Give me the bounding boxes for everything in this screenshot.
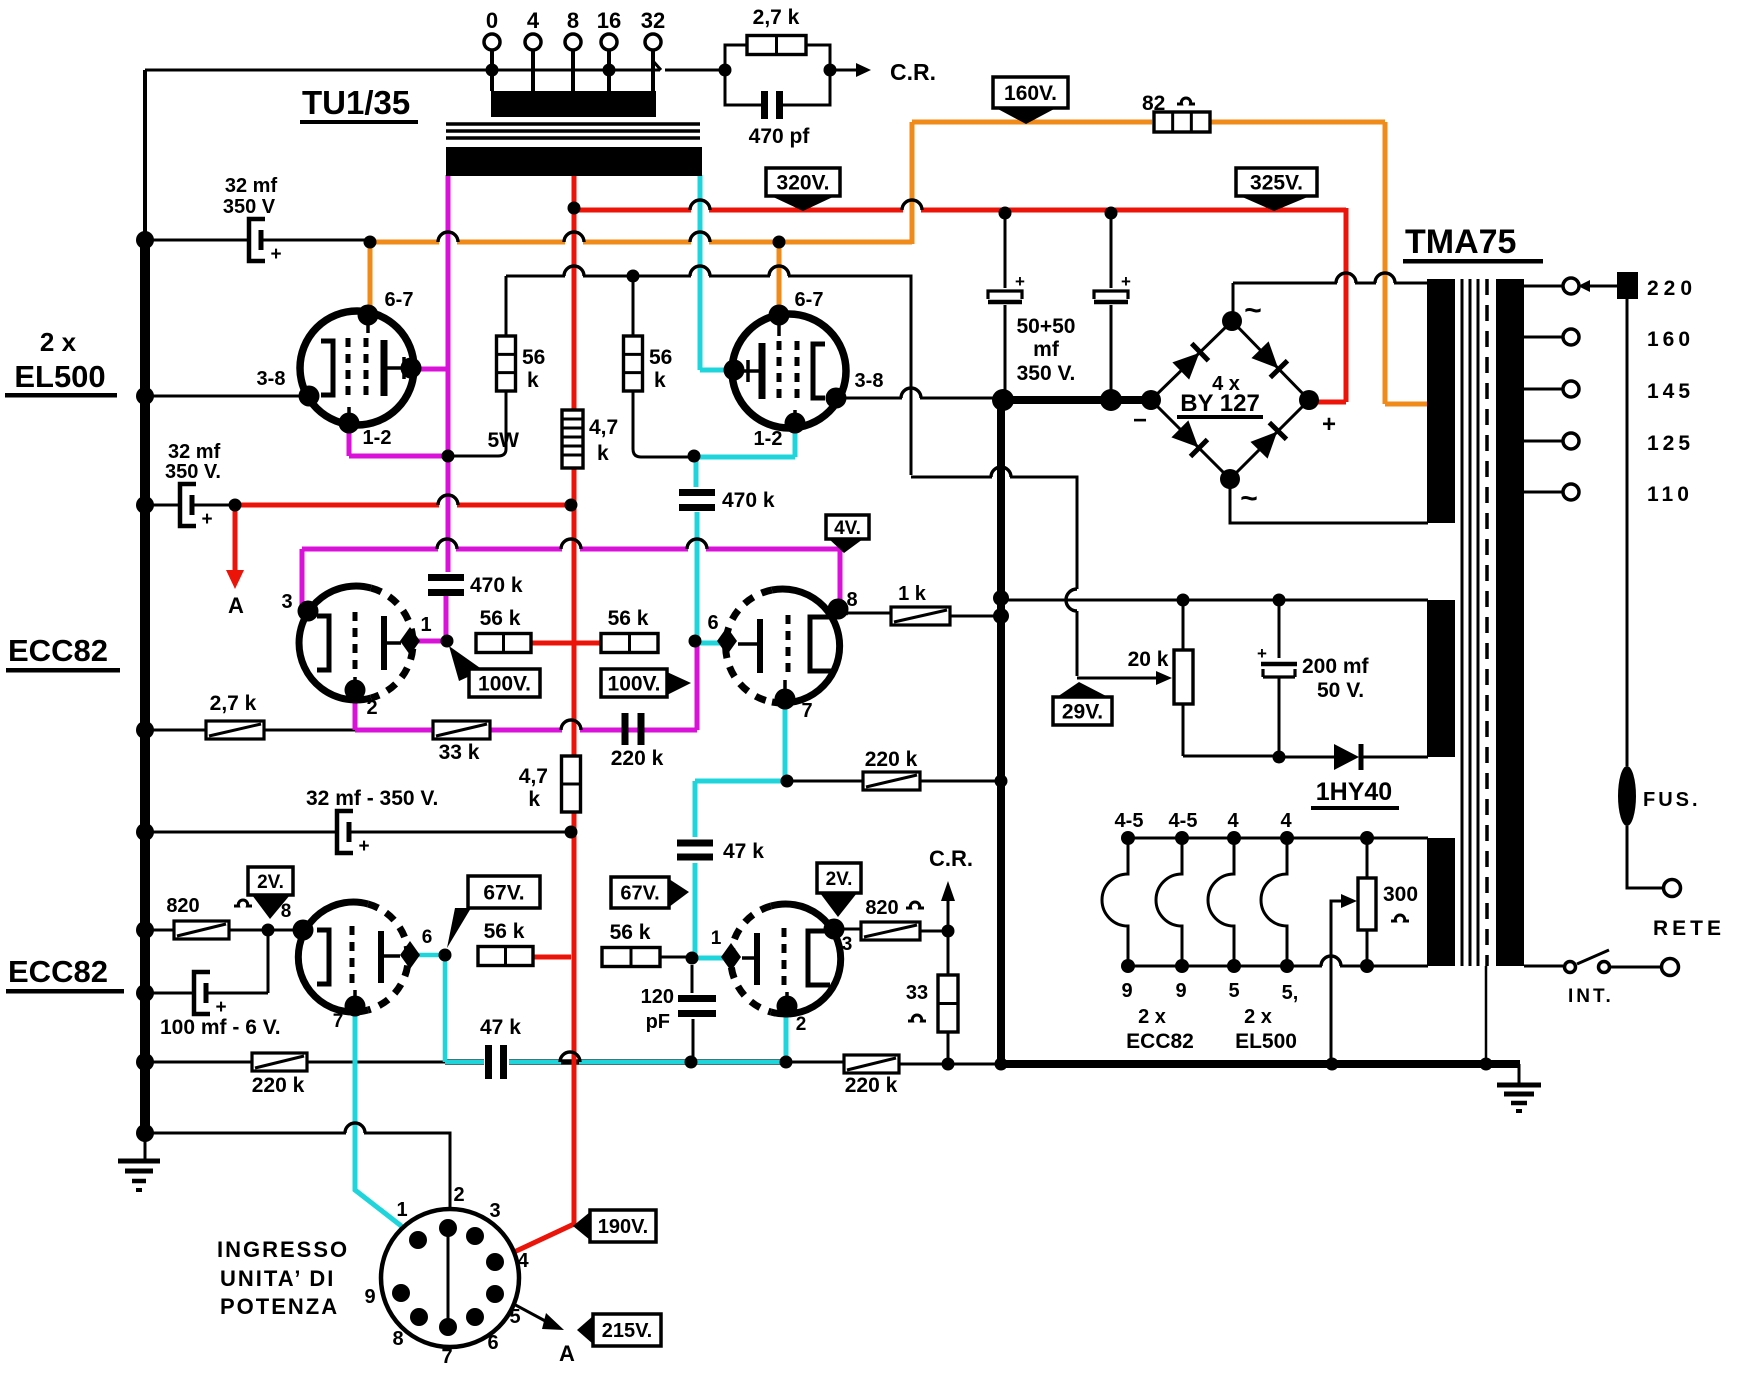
wire red 56k link mid [531, 641, 601, 646]
heater junction [1227, 959, 1241, 973]
svg-text:2,7 k: 2,7 k [753, 6, 800, 29]
junction [719, 64, 732, 77]
bus junction [136, 1053, 154, 1071]
svg-text:TMA75: TMA75 [1405, 223, 1516, 261]
wire 33 ohm leads [947, 931, 950, 1064]
junction [942, 1058, 955, 1071]
wire orange drop to right EL500 [777, 242, 782, 310]
output terminal 0 [484, 34, 500, 50]
svg-text:2: 2 [453, 1184, 464, 1206]
junction [995, 775, 1008, 788]
svg-text:160V.: 160V. [1004, 82, 1057, 105]
svg-text:56: 56 [522, 346, 545, 369]
svg-text:1: 1 [420, 614, 431, 636]
wire 20k pot leads [1183, 600, 1279, 756]
heater junction [1121, 831, 1135, 845]
capacitor 220k coupling [622, 713, 629, 745]
transformer TU1/35 core lines [446, 124, 700, 138]
ground symbol right [1518, 1064, 1521, 1083]
svg-text:4-5: 4-5 [1115, 810, 1144, 832]
svg-text:56 k: 56 k [480, 607, 521, 630]
wire 32mf row 2 [145, 504, 235, 507]
junction [942, 925, 955, 938]
wire magenta anode to 470k [446, 458, 451, 572]
heater junction [1175, 959, 1189, 973]
tube V5 ECC82 bottom left [298, 902, 408, 1012]
wire connector pins 2-7 link [447, 1228, 450, 1327]
svg-text:+: + [215, 997, 226, 1018]
svg-text:2V.: 2V. [826, 869, 853, 890]
hop screen row over orange [769, 266, 789, 276]
svg-text:4: 4 [1227, 810, 1239, 832]
svg-text:−: − [1133, 407, 1147, 434]
svg-text:3: 3 [489, 1200, 500, 1222]
svg-text:2V.: 2V. [257, 872, 284, 893]
heater junction [1280, 831, 1294, 845]
wire red A branch arrow [233, 505, 238, 572]
grid pin diamonds [400, 627, 420, 655]
svg-text:EL500: EL500 [14, 359, 105, 394]
svg-text:6: 6 [487, 1332, 498, 1354]
capacitor 120pF [678, 995, 716, 1002]
svg-text:4,7: 4,7 [519, 765, 548, 788]
label 2V flag right [817, 863, 861, 893]
terminal RETE upper [1664, 880, 1681, 897]
wire 32mf row 3 [145, 831, 571, 834]
resistor 56k bottom left [478, 947, 533, 966]
tube V4 ECC82 mid right [726, 589, 840, 703]
svg-text:7: 7 [801, 700, 812, 722]
hop transformer wire over orange [1375, 273, 1395, 283]
wire screen row 56k tops [506, 276, 1156, 678]
svg-text:220 k: 220 k [845, 1074, 898, 1097]
wire bridge bottom to TMA75 [1230, 479, 1428, 523]
hop orange bus over magenta [438, 232, 458, 242]
svg-text:820: 820 [166, 895, 199, 917]
wire cyan 470k to grid junction [695, 512, 722, 643]
svg-text:47 k: 47 k [480, 1016, 521, 1039]
junction [603, 64, 616, 77]
svg-text:100 mf - 6 V.: 100 mf - 6 V. [160, 1016, 281, 1039]
svg-text:mf: mf [1033, 338, 1060, 361]
wire C.R. output arrow [832, 69, 856, 72]
junction [1480, 1058, 1493, 1071]
heater junction [1360, 831, 1374, 845]
svg-text:470 k: 470 k [470, 574, 523, 597]
wire 32mf row 1 [145, 239, 370, 242]
svg-text:6-7: 6-7 [795, 289, 824, 311]
wire bridge diamond [1151, 321, 1309, 479]
svg-text:32 mf: 32 mf [168, 441, 221, 463]
svg-text:6-7: 6-7 [385, 289, 414, 311]
label 190V flag [590, 1210, 656, 1242]
wire 820 row to pin3 [834, 929, 948, 931]
wire cyan-black feedback row [445, 1059, 786, 1065]
svg-text:ECC82: ECC82 [1126, 1030, 1194, 1053]
svg-text:220 k: 220 k [252, 1074, 305, 1097]
hop magenta bus over red [561, 539, 581, 549]
junction [229, 499, 242, 512]
hop screen row over cyan [690, 266, 710, 276]
resistor 2.7k output [747, 36, 806, 55]
svg-text:470 pf: 470 pf [749, 125, 811, 148]
svg-text:2 x: 2 x [40, 327, 77, 357]
primary tap circle 125 [1563, 433, 1579, 449]
transformer TMA75 left bar lower [1427, 838, 1455, 966]
junction [688, 450, 701, 463]
junction [568, 202, 581, 215]
svg-text:160: 160 [1647, 328, 1694, 351]
svg-text:C.R.: C.R. [890, 59, 936, 85]
svg-text:8: 8 [281, 901, 292, 922]
wire 20k wiper arrow [1156, 671, 1172, 685]
wire heater top bus [1128, 837, 1428, 840]
tube pin dots [358, 305, 379, 326]
label 29V flag [1057, 682, 1108, 697]
junction [995, 1058, 1008, 1071]
hop transformer wire over red [1336, 273, 1356, 283]
wire magenta 470k to grid junction [410, 596, 447, 641]
svg-text:0: 0 [486, 8, 498, 33]
svg-text:7: 7 [441, 1346, 452, 1368]
output terminal 16 [601, 34, 617, 50]
svg-text:RETE: RETE [1653, 917, 1725, 940]
wire left supply bus [143, 70, 147, 238]
svg-text:ECC82: ECC82 [8, 633, 108, 668]
svg-text:820: 820 [865, 897, 898, 919]
svg-text:100V.: 100V. [478, 673, 531, 696]
junction [565, 826, 578, 839]
ground symbol left [144, 1133, 147, 1160]
svg-text:110: 110 [1647, 483, 1693, 506]
wire orange screen supply drop [368, 242, 373, 308]
wire 56k left bottom [448, 391, 506, 456]
label 4V flag [826, 515, 869, 539]
hop magenta bus over cyan [687, 539, 707, 549]
svg-text:1-2: 1-2 [754, 428, 783, 450]
terminal RETE lower [1662, 959, 1679, 976]
svg-text:32: 32 [641, 8, 665, 33]
svg-text:67V.: 67V. [483, 882, 524, 905]
svg-text:+: + [201, 509, 212, 530]
svg-text:120: 120 [641, 986, 674, 1008]
hop orange bus over red [564, 232, 584, 242]
capacitor 32mf-350V no1 [249, 219, 265, 261]
capacitor 50+50mf b [1094, 291, 1128, 299]
wire 120pF leads [692, 965, 693, 1062]
svg-text:5: 5 [509, 1306, 520, 1328]
hop red row505 over magenta [438, 495, 458, 505]
junction [999, 207, 1012, 220]
svg-text:FUS.: FUS. [1643, 789, 1701, 811]
wire magenta bias bus 549 [302, 549, 840, 606]
svg-text:8: 8 [846, 589, 857, 611]
junction [439, 949, 452, 962]
svg-text:2: 2 [366, 697, 377, 719]
bus junction [136, 496, 154, 514]
svg-text:2,7 k: 2,7 k [210, 692, 257, 715]
svg-text:32 mf: 32 mf [225, 175, 278, 197]
svg-text:POTENZA: POTENZA [220, 1294, 339, 1319]
svg-text:2 x: 2 x [1138, 1006, 1166, 1028]
svg-text:56 k: 56 k [484, 920, 525, 943]
svg-text:82: 82 [1142, 92, 1165, 115]
label 100V flag right [601, 669, 667, 697]
wire heater loop ECC82 a [1102, 838, 1128, 966]
transformer TU1/35 secondary bar [491, 91, 656, 117]
wire 220k row bottom right [786, 1062, 1001, 1064]
svg-text:9: 9 [364, 1286, 375, 1308]
resistor 56k grid mid right [601, 634, 658, 653]
svg-text:6: 6 [422, 927, 433, 948]
primary tap junction square [1617, 272, 1638, 299]
wire 820 cathode row bottom left [145, 929, 296, 932]
label 325V flag [1236, 168, 1317, 196]
svg-text:1 k: 1 k [898, 583, 927, 605]
resistor 1k [891, 607, 950, 625]
wire transformer shield to ground [1485, 966, 1488, 1064]
svg-text:3-8: 3-8 [855, 370, 884, 392]
svg-text:+: + [1257, 644, 1267, 663]
hop heater bus over wiper wire [1321, 956, 1341, 966]
heater junction [1360, 959, 1374, 973]
svg-text:3: 3 [281, 591, 292, 613]
svg-text:INGRESSO: INGRESSO [217, 1237, 349, 1262]
wire 300 pot wiper to ground [1331, 901, 1341, 1064]
svg-text:125: 125 [1647, 432, 1694, 455]
svg-text:67V.: 67V. [620, 883, 659, 905]
svg-text:33 k: 33 k [439, 741, 480, 764]
transformer TMA75 left bar middle [1427, 600, 1455, 757]
junction [781, 775, 794, 788]
svg-text:4: 4 [1280, 810, 1292, 832]
svg-text:k: k [654, 369, 666, 392]
junction [1105, 207, 1118, 220]
junction [627, 270, 640, 283]
wire 1k to pin8 [838, 611, 848, 614]
wire cyan riser to pin2 [784, 1008, 789, 1062]
wire bias supply row 600 [1001, 599, 1428, 602]
wire HT distribution bus vertical [997, 400, 1005, 1064]
svg-text:5W: 5W [488, 429, 520, 452]
svg-text:350 V.: 350 V. [1017, 362, 1076, 385]
wire red to bridge plus [1311, 208, 1346, 402]
wire 56k right top [632, 276, 635, 336]
svg-text:145: 145 [1647, 380, 1694, 403]
wire mains line to fuse [1627, 298, 1663, 888]
resistor 20k potentiometer [1174, 650, 1193, 704]
svg-text:5: 5 [1228, 980, 1239, 1002]
wire magenta cathode row 456 [349, 426, 448, 456]
wire bridge top to TMA75 [1233, 283, 1428, 322]
svg-text:220 k: 220 k [611, 747, 664, 770]
junction [1326, 1058, 1339, 1071]
connector INGRESSO 9-pin socket [381, 1209, 519, 1347]
hop red row over orange [902, 200, 922, 210]
svg-text:4: 4 [527, 8, 540, 33]
hop 3-8 row over screen drop [901, 388, 921, 398]
capacitor 470k lower [428, 574, 464, 581]
wire C.R. arrow bottom [947, 899, 950, 931]
hop magenta row730 over red [561, 720, 581, 730]
junction [364, 236, 377, 249]
junction [689, 635, 702, 648]
wire 220k grid row bottom left [145, 1061, 445, 1064]
svg-text:47 k: 47 k [723, 840, 764, 863]
svg-text:4-5: 4-5 [1169, 810, 1198, 832]
svg-text:350 V.: 350 V. [165, 461, 221, 483]
junction [486, 64, 499, 77]
output terminal 32 [645, 34, 661, 50]
capacitor 50+50mf a [988, 291, 1022, 299]
label 100V flag left [449, 646, 483, 681]
wire red HT centre tap vertical [495, 175, 574, 1261]
wire heater loop ECC82 b [1156, 838, 1182, 966]
resistor 4.7k tail [562, 756, 581, 812]
hop red row over cyan [690, 200, 710, 210]
bus junction [136, 984, 154, 1002]
heater junction [1280, 959, 1294, 973]
wire red row 505 to A [235, 503, 572, 508]
svg-text:INT.: INT. [1568, 986, 1614, 1007]
svg-text:4V.: 4V. [834, 518, 861, 539]
primary tap circle 145 [1563, 381, 1579, 397]
wire switch INT row [1524, 950, 1661, 967]
diode 1HY40 [1334, 744, 1359, 770]
label 320V flag [766, 168, 840, 196]
svg-text:7: 7 [333, 1011, 344, 1032]
svg-text:100V.: 100V. [608, 673, 661, 696]
label 215V flag [593, 1314, 661, 1346]
wire orange 160V bus [370, 122, 1428, 404]
transformer TMA75 core [1462, 279, 1478, 966]
capacitor 47k bottom [485, 1045, 492, 1079]
svg-text:k: k [597, 442, 609, 465]
wire top output line [145, 61, 725, 70]
resistor 2.7k cathode [206, 721, 264, 739]
junction [565, 499, 578, 512]
svg-text:350 V: 350 V [223, 196, 276, 218]
junction [686, 952, 699, 965]
label 160V flag [993, 77, 1068, 108]
svg-text:215V.: 215V. [602, 1320, 652, 1342]
svg-text:8: 8 [567, 8, 579, 33]
junction [780, 1056, 793, 1069]
svg-text:k: k [528, 788, 540, 811]
wire 3-8 row left EL500 [145, 395, 303, 398]
svg-text:50+50: 50+50 [1017, 315, 1076, 338]
resistor 220k bottom left [252, 1053, 307, 1071]
wire 300 pot leads [1366, 838, 1369, 966]
wire 1k row [840, 613, 1001, 616]
switch INT contacts [1565, 962, 1576, 973]
svg-text:9: 9 [1121, 980, 1132, 1002]
svg-text:+: + [1121, 272, 1131, 291]
junction [1273, 594, 1286, 607]
hop screen row over red [564, 266, 584, 276]
wire magenta to pin3 [302, 549, 308, 611]
svg-text:2 x: 2 x [1244, 1006, 1272, 1028]
wire bottom row to connector pin2 [145, 1133, 450, 1228]
wire 100mf bypass row [145, 930, 268, 993]
wire red HT row 210 [574, 208, 1346, 213]
wire TMA75 primary taps [1524, 286, 1562, 492]
wire heater loop EL500 b [1261, 838, 1287, 966]
label 67V flag right [611, 877, 669, 908]
heater junction [1121, 959, 1135, 973]
resistor 820 left [174, 921, 229, 939]
svg-text:3-8: 3-8 [257, 368, 286, 390]
wire magenta anode drop [446, 175, 451, 453]
bus junction [136, 1124, 154, 1142]
bus junction [136, 721, 154, 739]
capacitor 32mf-350V no2 [180, 484, 196, 526]
heater junction [1227, 831, 1241, 845]
tube V3 ECC82 mid left [299, 586, 413, 700]
resistor 82 [1154, 112, 1210, 132]
capacitor 100mf-6V [194, 972, 210, 1014]
svg-text:9: 9 [1175, 980, 1186, 1002]
bridge corner dots [1141, 390, 1161, 410]
wire 1HY40 row [1279, 756, 1428, 759]
svg-text:A: A [559, 1341, 575, 1366]
svg-text:220 k: 220 k [865, 748, 918, 771]
junction [773, 236, 786, 249]
svg-text:325V.: 325V. [1250, 172, 1303, 195]
svg-text:+: + [270, 244, 281, 265]
svg-text:pF: pF [646, 1011, 670, 1033]
hop magenta bus over magenta drop [437, 539, 457, 549]
hop orange bus over cyan [690, 232, 710, 242]
svg-text:29V.: 29V. [1062, 701, 1103, 724]
resistor 33 ohm [938, 975, 958, 1032]
wire 220 tap arrow [1590, 285, 1617, 288]
svg-text:33: 33 [906, 982, 928, 1004]
bus junction big [992, 389, 1014, 411]
wire cyan right EL500 cathode to 470k [696, 425, 795, 487]
bus junction [136, 387, 154, 405]
svg-text:2: 2 [796, 1014, 807, 1035]
wire 50+50mf cap 1 leads [1004, 213, 1007, 400]
wire C.R. network loop [725, 45, 830, 105]
svg-text:32 mf - 350 V.: 32 mf - 350 V. [306, 787, 438, 810]
svg-text:4: 4 [517, 1250, 529, 1272]
wire heater bottom bus [1128, 965, 1428, 968]
svg-text:56 k: 56 k [608, 607, 649, 630]
svg-text:5,: 5, [1282, 982, 1299, 1004]
wire ground bus bottom [1001, 1060, 1520, 1068]
svg-text:EL500: EL500 [1235, 1030, 1297, 1053]
junction [262, 924, 275, 937]
output terminal 4 [525, 34, 541, 50]
wire output tap stems [492, 50, 653, 91]
bus junction [136, 921, 154, 939]
svg-text:190V.: 190V. [598, 1216, 648, 1238]
resistor 220k bottom right [844, 1055, 899, 1073]
svg-text:TU1/35: TU1/35 [302, 84, 410, 121]
wire cyan pin7 to connector [355, 1008, 418, 1239]
capacitor 32mf-350V no3 [337, 811, 353, 853]
rectifier bridge 4x BY127 [1172, 344, 1208, 380]
transformer TU1/35 primary bar [446, 147, 702, 176]
svg-text:+: + [1015, 272, 1025, 291]
svg-text:50 V.: 50 V. [1317, 679, 1364, 702]
resistor 4.7k 5W [562, 410, 583, 468]
hop bottom row over cyan [345, 1123, 365, 1133]
svg-text:20 k: 20 k [1128, 648, 1169, 671]
wire 50+50mf cap 2 leads [1110, 213, 1113, 400]
wire red 56k link bottom [533, 955, 571, 960]
